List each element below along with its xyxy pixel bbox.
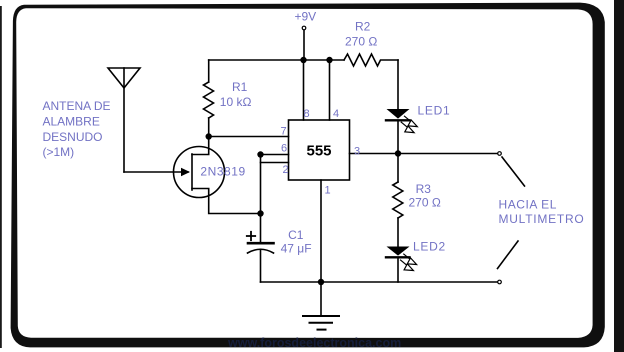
svg-text:2N3819: 2N3819 xyxy=(200,165,245,179)
svg-text:R1: R1 xyxy=(232,80,248,94)
svg-text:270 Ω: 270 Ω xyxy=(409,196,441,210)
svg-text:+9V: +9V xyxy=(295,10,317,24)
svg-text:1: 1 xyxy=(325,185,331,197)
svg-text:(>1M): (>1M) xyxy=(43,145,75,159)
svg-text:HACIA EL: HACIA EL xyxy=(499,197,557,211)
svg-text:DESNUDO: DESNUDO xyxy=(43,130,103,144)
svg-text:555: 555 xyxy=(306,143,331,160)
svg-text:LED1: LED1 xyxy=(418,104,451,118)
svg-text:270 Ω: 270 Ω xyxy=(345,35,377,49)
svg-text:2: 2 xyxy=(283,164,289,176)
svg-text:C1: C1 xyxy=(288,228,304,242)
svg-text:MULTIMETRO: MULTIMETRO xyxy=(499,212,585,226)
svg-text:www.forosdeelectronica.com: www.forosdeelectronica.com xyxy=(227,336,401,350)
svg-text:R2: R2 xyxy=(355,20,371,34)
svg-text:8: 8 xyxy=(304,108,310,120)
svg-text:ALAMBRE: ALAMBRE xyxy=(43,114,100,128)
svg-text:4: 4 xyxy=(333,108,339,120)
svg-text:LED2: LED2 xyxy=(413,240,446,254)
svg-text:3: 3 xyxy=(354,145,360,157)
svg-text:7: 7 xyxy=(281,126,287,138)
svg-text:6: 6 xyxy=(281,143,287,155)
svg-text:ANTENA DE: ANTENA DE xyxy=(43,99,111,113)
svg-text:47 μF: 47 μF xyxy=(281,242,312,256)
svg-text:R3: R3 xyxy=(416,182,432,196)
svg-text:10 kΩ: 10 kΩ xyxy=(220,95,252,109)
